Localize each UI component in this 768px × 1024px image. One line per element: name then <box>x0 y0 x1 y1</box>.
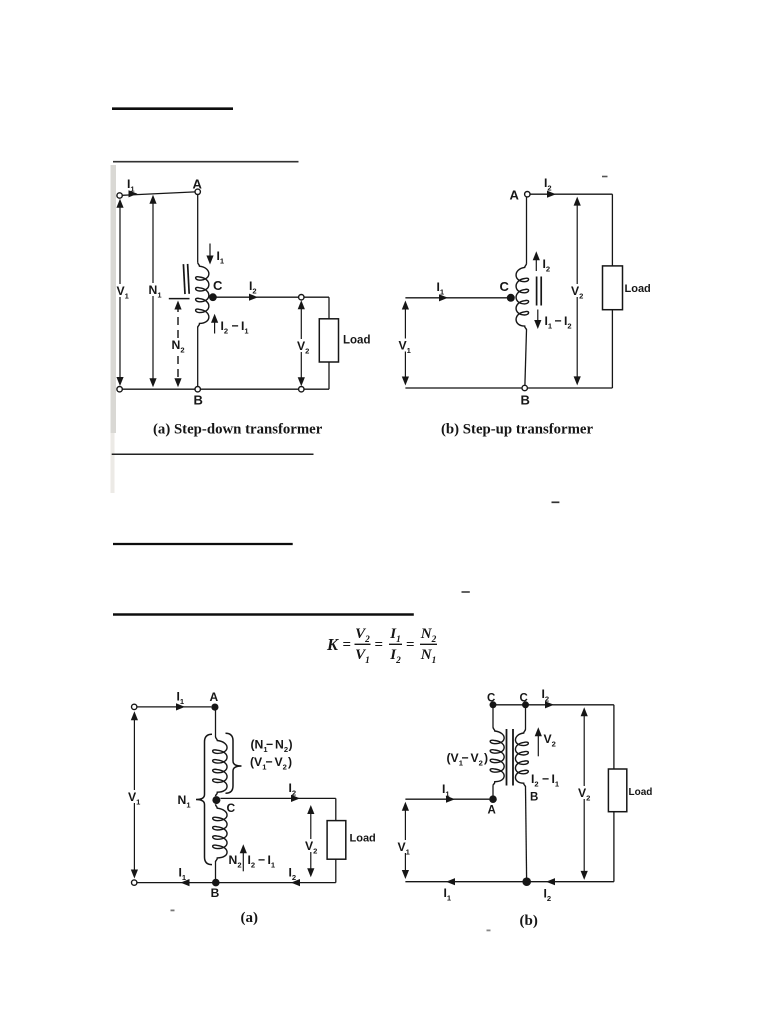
core marks (a1) <box>183 264 189 294</box>
wire: bottom rail (b1) <box>405 387 612 389</box>
arrow I1 (b1) <box>439 294 448 301</box>
wire: C to output (a1) <box>215 296 299 298</box>
winding upper section (a2 coil) <box>213 737 227 797</box>
node C tap dot (a2) <box>212 796 220 804</box>
svg-text:(a): (a) <box>241 910 259 926</box>
arrow I1 (b2) <box>446 796 455 803</box>
arrow I1 on top wire (a1) <box>129 190 138 197</box>
svg-text:=: = <box>406 637 415 653</box>
current I2-I1 arrow (a1) <box>214 317 216 334</box>
node B (b1) terminal <box>522 385 527 390</box>
winding primary (b2 coil) <box>490 727 504 786</box>
measure V2 arrow (b1) <box>576 200 578 382</box>
load resistor box (b1) <box>603 266 623 310</box>
wire: bottom rail (b2) <box>405 881 614 883</box>
arrow I1 top (a2) <box>176 703 185 710</box>
scan edge shading <box>111 165 117 433</box>
wire: winding to A (b2) <box>492 786 494 796</box>
arrow I2 (a2) <box>291 795 300 802</box>
svg-text:−: − <box>266 738 273 752</box>
current I2-I1 arrow (a2) <box>242 848 244 872</box>
core marks (b2) <box>506 729 508 786</box>
node A dot (a2) <box>211 704 218 711</box>
terminal: input top (a2) <box>132 704 137 709</box>
winding section (b1 coil) <box>516 263 529 330</box>
current I1 arrow into coil (a1) <box>209 244 211 263</box>
wire: top-left feed (a1) <box>122 192 195 195</box>
measure V2 arrow (b2) <box>583 711 585 877</box>
measure V1 arrow (b2) <box>404 805 406 876</box>
node A (a1) terminal <box>195 189 200 194</box>
wire: coil to B (a2) <box>215 862 217 879</box>
wire: secondary to junction (b2) <box>526 787 527 878</box>
svg-text:): ) <box>288 755 292 769</box>
stray mark top right <box>602 176 608 178</box>
svg-text:−: − <box>555 314 562 328</box>
rule line 4 <box>113 543 293 545</box>
svg-text:(b): (b) <box>520 913 538 929</box>
svg-text:Load: Load <box>625 283 651 295</box>
label V2 (a2) <box>305 839 319 852</box>
svg-text:=: = <box>375 637 384 653</box>
label V1 (a2) <box>128 790 142 803</box>
current V2 arrow (b2) <box>537 731 539 757</box>
measure N2 arrow (a1) <box>177 304 179 382</box>
node B dot (a2) <box>212 879 220 887</box>
stray speck bottom <box>487 930 491 932</box>
core marks (b1) <box>536 277 538 306</box>
wire: load bottom to bottom rail (a1) <box>328 362 330 389</box>
load resistor box (b2) <box>608 769 626 812</box>
stray dash 1 <box>552 501 560 503</box>
wire: A down to coil (a2) <box>215 710 217 737</box>
arrow I2 top (b2) <box>545 701 554 708</box>
svg-text:C: C <box>227 801 236 815</box>
wire: C to load (a2) <box>220 797 335 799</box>
svg-text:B: B <box>211 886 220 900</box>
winding secondary (b2 coil) <box>515 729 528 787</box>
node C tap dot (b1) <box>507 294 515 302</box>
wire: coil to B (a1) <box>197 328 199 387</box>
node C tap dot (a1) <box>209 293 217 301</box>
svg-text:A: A <box>488 805 496 817</box>
svg-text:−: − <box>266 755 273 769</box>
node A dot (b2) <box>489 795 497 803</box>
label V1 (b2) <box>398 840 412 853</box>
svg-text:(b) Step-up transformer: (b) Step-up transformer <box>441 422 593 438</box>
arrow I1 bottom (b2) <box>446 878 455 885</box>
measure N2 tick (a1) <box>169 298 190 300</box>
node C left dot (b2) <box>490 701 497 708</box>
svg-text:−: − <box>542 772 549 786</box>
arrow I2 on C wire (a1) <box>249 294 258 301</box>
terminal: input bottom (a2) <box>132 880 137 885</box>
stray speck left <box>171 910 175 912</box>
svg-text:A: A <box>210 690 219 704</box>
wire: A down to coil (a1) <box>197 195 199 263</box>
arrow I2 top (b1) <box>547 191 556 198</box>
terminal: input top (a1) <box>117 193 122 198</box>
wire: right C down (b2) <box>525 708 527 730</box>
svg-text:Load: Load <box>343 335 370 347</box>
svg-text:A: A <box>510 188 520 203</box>
wire: load bottom down (b2) <box>613 812 615 882</box>
svg-text:A: A <box>193 177 203 192</box>
label V1 (a1) <box>116 284 130 297</box>
measure N1 arrow (a1) <box>152 198 154 384</box>
wire: top feed (a2) <box>137 706 211 708</box>
svg-text:B: B <box>521 393 530 408</box>
wire: load drop (a2) <box>335 798 337 820</box>
wire: left C down (b2) <box>492 708 494 728</box>
node B (a1) terminal <box>195 387 200 392</box>
label V1 (b1) <box>399 339 413 352</box>
measure V1 arrow (a2) <box>133 715 135 876</box>
wire: coil to B (b1) <box>525 330 527 385</box>
arrow I2 bottom (b2) <box>546 878 555 885</box>
stray dash 2 <box>462 591 470 593</box>
svg-text:−: − <box>232 319 239 333</box>
label N1 (a1) <box>148 283 163 296</box>
terminal: input bottom (a1) <box>117 387 122 392</box>
current I2 arrow (b1) <box>535 255 537 272</box>
svg-text:−: − <box>462 751 469 765</box>
wire: top rail (b2) <box>493 704 614 706</box>
svg-text:C: C <box>500 279 510 294</box>
wire: right rail down to load (b2) <box>613 705 615 769</box>
brace N1 left (a2) <box>196 734 212 864</box>
load resistor box (a2) <box>327 821 346 860</box>
svg-text:−: − <box>258 853 265 867</box>
label V2 (b2) <box>578 786 592 799</box>
label V2 (a1) <box>297 339 311 352</box>
svg-text:B: B <box>530 792 538 804</box>
svg-text:C: C <box>213 278 223 293</box>
svg-text:): ) <box>484 751 488 765</box>
wire: output top to load corner (a1) <box>304 296 329 298</box>
measure V2 arrow (a2) <box>310 808 312 874</box>
wire: load bottom down (b1) <box>611 310 613 388</box>
node A (b1) terminal <box>525 192 530 197</box>
load resistor box (a1) <box>319 319 338 362</box>
wire: right rail down to load (b1) <box>611 194 613 266</box>
rule line 5 (above formula) <box>113 613 414 615</box>
measure V1 arrow (b1) <box>404 303 406 382</box>
svg-text:): ) <box>289 738 293 752</box>
svg-text:B: B <box>194 393 203 408</box>
node junction dot (b2) <box>522 877 531 886</box>
wire: A to load top rail (b1) <box>530 193 612 195</box>
arrow I1 bottom (a2) <box>181 879 190 886</box>
svg-text:(a) Step-down transformer: (a) Step-down transformer <box>153 422 323 438</box>
winding lower section (a2 coil) <box>213 804 227 862</box>
svg-text:C: C <box>520 693 528 705</box>
node C right dot (b2) <box>522 701 529 708</box>
measure V2 arrow (a1) <box>300 303 302 383</box>
winding N1-N2 section (a1 coil) <box>196 262 209 327</box>
wire: load bottom (a2) <box>335 859 337 882</box>
wire: C to input (b1) <box>405 297 507 299</box>
measure V1 arrow (a1) <box>119 202 121 383</box>
brace upper-right (a2) <box>226 733 242 793</box>
wire: A down to coil (b1) <box>526 197 528 264</box>
svg-text:K: K <box>326 635 339 654</box>
rule line 3 <box>112 453 314 455</box>
label V2 (b1) <box>571 284 585 297</box>
current I1-I2 arrow (b1) <box>537 310 539 327</box>
svg-text:C: C <box>487 693 495 705</box>
wire: bottom rail (a1) <box>122 388 299 390</box>
terminal: output bottom (a1) <box>299 387 304 392</box>
arrow I2 bottom (a2) <box>291 879 300 886</box>
rule line 1 (top heading underline) <box>112 107 233 110</box>
label N2 (a1) <box>172 338 187 351</box>
wire: A to input (b2) <box>405 798 489 800</box>
svg-text:Load: Load <box>350 833 376 845</box>
wire: bottom rail (a2) <box>137 882 336 884</box>
svg-text:=: = <box>343 637 352 653</box>
terminal: output top (a1) <box>299 295 304 300</box>
svg-text:Load: Load <box>629 787 653 798</box>
rule line 2 (section underline) <box>113 161 299 163</box>
